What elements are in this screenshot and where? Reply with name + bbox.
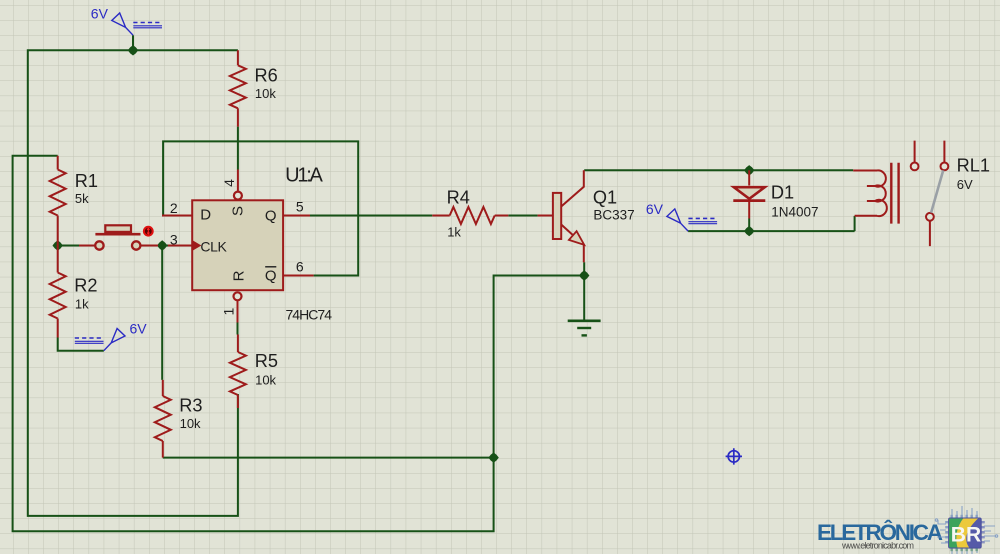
svg-text:CLK: CLK [200,238,227,254]
svg-text:6V: 6V [91,5,109,21]
svg-text:6V: 6V [957,177,973,192]
svg-text:Q: Q [265,208,277,225]
svg-text:R1: R1 [75,171,98,191]
svg-text:BR: BR [951,524,981,547]
svg-text:1: 1 [221,307,237,315]
svg-text:R5: R5 [255,351,278,371]
svg-text:6V: 6V [130,321,148,337]
svg-text:U1:A: U1:A [285,164,323,186]
svg-text:Q1: Q1 [593,188,617,208]
svg-text:10k: 10k [255,86,276,101]
svg-text:6V: 6V [646,201,664,217]
svg-text:1N4007: 1N4007 [771,205,818,220]
svg-text:Q: Q [265,267,277,284]
svg-text:RL1: RL1 [957,155,990,175]
svg-text:5k: 5k [75,191,89,206]
svg-text:1k: 1k [75,297,89,312]
svg-text:D1: D1 [771,183,794,203]
svg-text:D: D [200,207,211,224]
svg-text:4: 4 [221,179,237,187]
svg-text:R: R [231,270,248,281]
svg-text:3: 3 [170,231,178,247]
svg-text:5: 5 [296,199,304,215]
svg-text:2: 2 [170,200,178,216]
svg-text:R4: R4 [447,187,470,207]
svg-text:S: S [230,206,247,216]
svg-text:10k: 10k [180,416,201,431]
svg-text:10k: 10k [255,373,276,388]
svg-text:1k: 1k [447,224,461,239]
svg-text:74HC74: 74HC74 [286,307,333,323]
svg-text:6: 6 [296,258,304,274]
svg-text:R3: R3 [179,396,202,416]
svg-text:R2: R2 [74,276,97,296]
svg-text:www.eletronicabr.com: www.eletronicabr.com [841,541,914,551]
svg-text:BC337: BC337 [593,208,634,223]
svg-text:R6: R6 [255,65,278,85]
